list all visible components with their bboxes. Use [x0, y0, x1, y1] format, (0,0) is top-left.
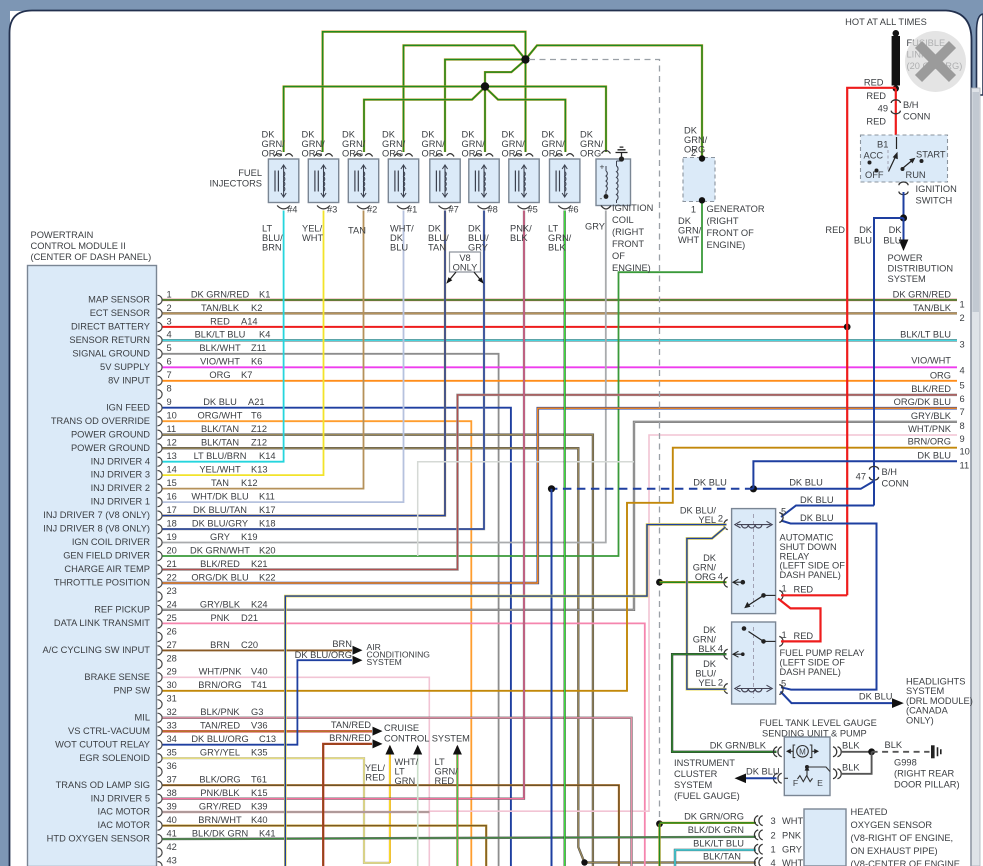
fuel injector #7	[430, 154, 460, 215]
svg-text:ORG/WHT: ORG/WHT	[198, 411, 243, 421]
svg-text:WHT: WHT	[782, 816, 803, 826]
PCM pin 25 DATA LINK TRANSMIT	[54, 613, 258, 628]
node BLK/TAN bottom splice	[581, 859, 587, 865]
svg-text:OFF: OFF	[865, 170, 884, 180]
svg-text:(RIGHT: (RIGHT	[707, 216, 739, 226]
svg-text:BLK: BLK	[548, 243, 566, 253]
svg-text:K14: K14	[259, 451, 276, 461]
svg-text:2: 2	[771, 830, 776, 840]
label DK BLU/TAN under injector 7	[428, 224, 449, 253]
connector B/H CONN 49	[891, 100, 900, 114]
svg-text:SIGNAL GROUND: SIGNAL GROUND	[72, 348, 150, 358]
fuel injector #5	[509, 154, 539, 215]
node BLK splice at G998	[868, 748, 875, 755]
svg-text:DK: DK	[302, 130, 316, 140]
svg-text:K19: K19	[241, 532, 258, 542]
svg-text:INJ DRIVER 5: INJ DRIVER 5	[91, 793, 150, 803]
PCM pin 37 TRANS OD LAMP SIG	[56, 775, 267, 790]
svg-text:INJECTORS: INJECTORS	[209, 179, 262, 189]
svg-text:BLK: BLK	[510, 233, 528, 243]
svg-text:1: 1	[782, 630, 787, 640]
fuel injector #2	[348, 154, 378, 215]
svg-text:FUEL TANK LEVEL GAUGE: FUEL TANK LEVEL GAUGE	[760, 718, 877, 728]
arrow to POWER DISTRIBUTION SYSTEM	[899, 240, 909, 252]
svg-text:RED: RED	[435, 776, 455, 786]
PCM pin 40 IAC MOTOR	[97, 815, 267, 830]
label ASD relay pins	[680, 506, 814, 595]
wire DK GRN/ORG bus injector 3 to injector 5 via top	[323, 32, 526, 152]
svg-text:DK: DK	[262, 130, 276, 140]
PCM pin 31	[158, 694, 177, 709]
wire DK GRN/ORG bus to generator pin 2	[528, 45, 703, 158]
label DK BLU pair below switch	[825, 225, 902, 246]
PCM pin 24 REF PICKUP	[94, 599, 267, 614]
label right edge 6 BLK/RED	[911, 384, 964, 404]
wire DK BLU wire ASD pin 5 to FP pin 5	[781, 521, 877, 690]
svg-text:K18: K18	[259, 519, 276, 529]
PCM pin 22 THROTTLE POSITION	[54, 572, 276, 587]
svg-text:5: 5	[960, 380, 965, 390]
wire BLK/WHT pin 5 ground	[163, 354, 499, 866]
svg-text:GRN/: GRN/	[302, 139, 326, 149]
svg-text:OXYGEN SENSOR: OXYGEN SENSOR	[851, 820, 933, 830]
wire TAN pin 15 to injector 2	[163, 211, 364, 489]
svg-text:ORG: ORG	[542, 149, 563, 159]
svg-text:ORG: ORG	[580, 149, 601, 159]
fuel injector #4	[268, 154, 298, 215]
svg-text:+: +	[600, 162, 605, 172]
svg-text:MAP SENSOR: MAP SENSOR	[88, 295, 150, 305]
label BLK/LT BLU at oxygen sensor	[693, 839, 744, 849]
svg-text:V40: V40	[251, 667, 268, 677]
svg-text:ORG/DK BLU: ORG/DK BLU	[894, 397, 951, 407]
label O2 pin numbers and colors	[771, 816, 804, 866]
label YEL/RED	[365, 763, 386, 783]
PCM pin 39 IAC MOTOR	[97, 802, 267, 817]
svg-text:ORG: ORG	[302, 149, 323, 159]
svg-text:HEATED: HEATED	[851, 807, 888, 817]
PCM pin 16 INJ DRIVER 1	[91, 492, 275, 507]
ground at ignition coil	[616, 147, 628, 161]
svg-text:38: 38	[167, 788, 177, 798]
PCM pin 20 GEN FIELD DRIVER	[63, 545, 275, 560]
svg-text:GRY/BLK: GRY/BLK	[911, 411, 952, 421]
svg-text:TAN/RED: TAN/RED	[331, 720, 371, 730]
V8 ONLY note box	[446, 252, 483, 284]
svg-text:#4: #4	[287, 205, 297, 215]
ignition switch box	[861, 135, 948, 182]
svg-text:ONLY: ONLY	[453, 263, 478, 273]
svg-text:POWERTRAIN: POWERTRAIN	[31, 230, 94, 240]
svg-text:K40: K40	[251, 815, 268, 825]
svg-text:WHT/: WHT/	[390, 224, 414, 234]
node DK BLU left splice	[548, 485, 555, 492]
svg-text:GRN/: GRN/	[502, 139, 526, 149]
svg-text:BLK: BLK	[698, 644, 716, 654]
fuel injector #6	[550, 154, 580, 215]
wire BLK/TAN pin 11	[163, 435, 593, 866]
svg-text:9: 9	[960, 434, 965, 444]
svg-text:GRY/BLK: GRY/BLK	[200, 599, 241, 609]
svg-text:WHT: WHT	[302, 233, 323, 243]
wire DK GRN/ORG wire continues below	[658, 824, 660, 866]
svg-text:3: 3	[960, 339, 965, 349]
PCM pin 32 MIL	[135, 707, 264, 722]
svg-text:BRN: BRN	[332, 639, 352, 649]
svg-text:A21: A21	[248, 397, 265, 407]
svg-text:43: 43	[167, 856, 177, 866]
ground G998	[931, 745, 941, 758]
svg-text:BRN/ORG: BRN/ORG	[908, 437, 951, 447]
label IGNITION COIL (RIGHT FRONT OF ENGINE)	[612, 203, 653, 273]
svg-text:G3: G3	[251, 707, 263, 717]
svg-text:BLK/DK GRN: BLK/DK GRN	[688, 825, 744, 835]
svg-text:DK: DK	[468, 224, 482, 234]
svg-text:RED: RED	[210, 316, 230, 326]
wire BLK/LT BLU pin 4 to right edge	[163, 339, 958, 341]
wire WHT/PNK pin 29 to right edge	[163, 435, 958, 866]
label right edge 7 ORG/DK BLU	[894, 397, 965, 417]
wire DK GRN/ORG bus injector 4 branch	[284, 87, 483, 153]
svg-text:ORG/DK BLU: ORG/DK BLU	[191, 572, 248, 582]
label right edge 5 ORG	[930, 370, 965, 390]
svg-text:DK BLU: DK BLU	[917, 450, 951, 460]
wire unlabeled pale wire near pin 24 lane	[418, 462, 634, 556]
wire BLK/LT BLU wire to O2 pin 1	[675, 850, 756, 866]
svg-text:K15: K15	[251, 788, 268, 798]
svg-text:WHT/PNK: WHT/PNK	[199, 667, 243, 677]
svg-text:BLK/LT BLU: BLK/LT BLU	[693, 839, 744, 849]
PCM pin 1 MAP SENSOR	[88, 289, 270, 304]
svg-text:ORG: ORG	[262, 149, 283, 159]
node DK GRN/ORG tap to ASD relay	[656, 579, 663, 586]
PCM pin 23	[158, 586, 177, 601]
svg-text:4: 4	[960, 365, 965, 375]
svg-text:17: 17	[167, 505, 177, 515]
label BLK/DK GRN at oxygen sensor	[688, 825, 744, 835]
label DK GRN/ORG above position 6	[462, 130, 486, 159]
svg-text:V36: V36	[251, 721, 268, 731]
PCM pin 8	[158, 384, 172, 399]
svg-text:GEN FIELD DRIVER: GEN FIELD DRIVER	[63, 551, 150, 561]
svg-text:LT: LT	[435, 757, 445, 767]
svg-text:ORG: ORG	[422, 149, 443, 159]
svg-text:INJ DRIVER 2: INJ DRIVER 2	[91, 483, 150, 493]
svg-text:BLK/TAN: BLK/TAN	[703, 852, 741, 862]
label right edge 9 WHT/PNK	[908, 424, 965, 444]
svg-text:WOT CUTOUT RELAY: WOT CUTOUT RELAY	[55, 739, 150, 749]
svg-text:35: 35	[167, 748, 177, 758]
PCM pin 12 POWER GROUND	[71, 438, 267, 453]
wire WHT/DK BLU pin 16 to injector 1	[163, 211, 404, 503]
PCM pin 36	[158, 761, 177, 776]
svg-text:M: M	[799, 748, 806, 757]
svg-text:LT: LT	[262, 224, 272, 234]
svg-text:RED: RED	[794, 631, 814, 641]
svg-text:Z12: Z12	[251, 424, 267, 434]
svg-text:DK: DK	[422, 130, 436, 140]
svg-text:30: 30	[167, 680, 177, 690]
label BLK/TAN at oxygen sensor	[703, 852, 741, 862]
svg-text:19: 19	[167, 532, 177, 542]
svg-text:2: 2	[691, 148, 696, 158]
svg-text:GRN: GRN	[395, 776, 416, 786]
svg-text:T61: T61	[251, 775, 267, 785]
svg-text:GRN/: GRN/	[693, 563, 717, 573]
label DK GRN/ORG above position 1	[262, 130, 286, 159]
svg-text:TAN/BLK: TAN/BLK	[913, 303, 952, 313]
label right edge 10 BRN/ORG	[908, 437, 970, 457]
svg-text:DK: DK	[684, 126, 698, 136]
wire VIO/WHT pin 6 to right edge	[163, 366, 958, 368]
svg-text:BLK/PNK: BLK/PNK	[200, 707, 240, 717]
svg-text:14: 14	[167, 465, 177, 475]
svg-text:PNP SW: PNP SW	[113, 685, 150, 695]
wire DK BLU wire long vertical to B/H conn 47	[874, 218, 904, 506]
svg-text:A14: A14	[241, 316, 258, 326]
svg-text:4: 4	[718, 572, 723, 582]
svg-text:TRANS OD OVERRIDE: TRANS OD OVERRIDE	[51, 416, 150, 426]
svg-text:#1: #1	[407, 205, 417, 215]
svg-text:BLK: BLK	[885, 740, 903, 750]
svg-text:ORG: ORG	[462, 149, 483, 159]
wire DK BLU wire 47 down to ASD pin 5	[781, 506, 874, 518]
svg-text:WHT/: WHT/	[395, 757, 419, 767]
wire DK BLU dashed wire to left splice	[552, 488, 754, 490]
svg-text:A/C CYCLING SW INPUT: A/C CYCLING SW INPUT	[43, 645, 151, 655]
wire RED wire vertical to ASD pin 1	[781, 594, 847, 596]
svg-text:IAC MOTOR: IAC MOTOR	[97, 807, 150, 817]
svg-text:10: 10	[167, 411, 177, 421]
svg-text:POWER: POWER	[888, 253, 923, 263]
svg-text:#7: #7	[449, 205, 459, 215]
svg-text:(CENTER OF DASH PANEL): (CENTER OF DASH PANEL)	[31, 252, 152, 262]
label DK GRN/ORG above position 8	[542, 130, 566, 159]
svg-text:INSTRUMENT: INSTRUMENT	[674, 758, 735, 768]
arrows up to cruise control	[385, 745, 462, 755]
svg-text:CONTROL SYSTEM: CONTROL SYSTEM	[384, 734, 470, 744]
svg-text:DASH PANEL): DASH PANEL)	[780, 570, 841, 580]
svg-text:RED: RED	[866, 91, 886, 101]
svg-text:29: 29	[167, 667, 177, 677]
svg-text:#2: #2	[367, 205, 377, 215]
svg-text:BRN/ORG: BRN/ORG	[198, 680, 241, 690]
svg-text:SENSOR RETURN: SENSOR RETURN	[69, 335, 150, 345]
wire LT GRN/BLK injector 6 down	[564, 211, 566, 866]
PCM pin 28	[158, 653, 177, 668]
label DK GRN/ORG at oxygen sensor	[684, 812, 744, 822]
label right edge 11 DK BLU	[917, 450, 969, 470]
PCM pin 34 WOT CUTOUT RELAY	[55, 734, 276, 749]
wire DK GRN/ORG bus to ignition coil	[487, 87, 606, 153]
wire DK BLU wire fuel gauge to instrument cluster	[739, 777, 777, 779]
wire RED wire ASD pin 1 to FP pin 1	[778, 599, 821, 642]
svg-text:WHT: WHT	[678, 235, 699, 245]
svg-text:DK: DK	[580, 130, 594, 140]
svg-text:GRN/: GRN/	[462, 139, 486, 149]
svg-text:ECT SENSOR: ECT SENSOR	[90, 308, 151, 318]
svg-text:ENGINE): ENGINE)	[612, 263, 651, 273]
svg-text:24: 24	[167, 599, 177, 609]
label LT GRN/RED	[435, 757, 459, 786]
svg-text:DK: DK	[542, 130, 556, 140]
svg-text:40: 40	[167, 815, 177, 825]
svg-text:INJ DRIVER 8 (V8 ONLY): INJ DRIVER 8 (V8 ONLY)	[43, 524, 150, 534]
svg-text:TAN: TAN	[428, 243, 446, 253]
svg-text:(FUEL GAUGE): (FUEL GAUGE)	[674, 791, 740, 801]
svg-text:49: 49	[878, 104, 888, 114]
svg-text:DK: DK	[678, 216, 692, 226]
PCM pin 4 SENSOR RETURN	[69, 330, 270, 345]
label LT BLU/BRN under injector 4	[262, 224, 283, 253]
svg-text:WHT/PNK: WHT/PNK	[908, 424, 952, 434]
svg-text:G998: G998	[894, 758, 917, 768]
svg-text:26: 26	[167, 626, 177, 636]
wire DK GRN/ORG bus injector 2 branch	[364, 89, 483, 152]
svg-text:IGNITION: IGNITION	[916, 184, 957, 194]
svg-text:-: -	[600, 193, 603, 203]
wire DK BLU/YEL wire ASD pin 2 to FP pin 2	[687, 527, 727, 689]
svg-text:8: 8	[960, 421, 965, 431]
label right edge 1 DK GRN/RED	[893, 290, 965, 310]
wire PNK pin 25	[163, 623, 645, 866]
svg-text:#6: #6	[568, 205, 578, 215]
PCM pin 38 INJ DRIVER 5	[91, 788, 268, 803]
wire BRN/ORG pin 30 to right edge	[163, 448, 958, 691]
wire DK GRN/RED pin 1 to right edge	[163, 299, 958, 301]
PCM pin 10 TRANS OD OVERRIDE	[51, 411, 262, 426]
svg-text:SYSTEM: SYSTEM	[888, 274, 926, 284]
svg-text:2: 2	[167, 303, 172, 313]
PCM module box: POWERTRAIN CONTROL MODULE II	[28, 230, 157, 866]
svg-text:BLK/LT BLU: BLK/LT BLU	[900, 329, 951, 339]
svg-text:DK: DK	[703, 625, 717, 635]
label BRN/RED and arrow to cruise	[329, 733, 382, 748]
wire BLK/DK GRN pin 41 to O2 pin 2	[163, 837, 757, 839]
label FUEL PUMP RELAY (LEFT SIDE OF DASH PANEL)	[780, 648, 865, 677]
label 47 B/H CONN	[856, 467, 909, 489]
svg-text:GRN/: GRN/	[382, 139, 406, 149]
fusible link	[892, 30, 900, 92]
svg-text:DK BLU/: DK BLU/	[680, 506, 717, 516]
svg-text:6: 6	[960, 394, 965, 404]
heated oxygen sensor connector box	[754, 809, 846, 866]
svg-text:B/H: B/H	[903, 100, 919, 110]
svg-text:(V8-CENTER OF ENGINE,: (V8-CENTER OF ENGINE,	[851, 859, 963, 866]
node DK BLU split below switch	[900, 214, 907, 221]
svg-text:ORG: ORG	[209, 370, 230, 380]
svg-text:BLK: BLK	[842, 741, 860, 751]
svg-text:LT: LT	[395, 767, 405, 777]
label INSTRUMENT CLUSTER SYSTEM (FUEL GAUGE)	[674, 758, 740, 801]
svg-text:HTD OXYGEN SENSOR: HTD OXYGEN SENSOR	[47, 834, 151, 844]
wire DK BLU/ORG pin 34 to A/C system	[163, 660, 353, 745]
svg-text:10: 10	[960, 447, 970, 457]
label FUSIBLE LINK (20 GA ORG)	[907, 38, 963, 71]
svg-text:DK BLU: DK BLU	[693, 478, 727, 488]
svg-text:DK: DK	[859, 225, 873, 235]
svg-text:BLU: BLU	[854, 236, 872, 246]
svg-text:DK BLU/GRY: DK BLU/GRY	[192, 519, 248, 529]
svg-text:BLU/: BLU/	[428, 233, 449, 243]
wire DK BLU wire ignition switch to node	[903, 192, 905, 218]
label G998 (RIGHT REAR DOOR PILLAR)	[894, 758, 960, 790]
svg-text:GRN/: GRN/	[435, 767, 459, 777]
svg-text:11: 11	[960, 460, 970, 470]
svg-text:K21: K21	[251, 559, 268, 569]
svg-text:BLU/: BLU/	[695, 669, 716, 679]
svg-text:YEL/WHT: YEL/WHT	[199, 465, 241, 475]
svg-text:DK: DK	[502, 130, 516, 140]
svg-text:(RIGHT: (RIGHT	[612, 227, 644, 237]
svg-text:E: E	[817, 778, 823, 788]
svg-text:V8: V8	[459, 253, 470, 263]
PCM pin 27 A/C CYCLING SW INPUT	[43, 640, 259, 655]
svg-text:DK: DK	[462, 130, 476, 140]
node B green bus junction	[481, 82, 489, 90]
wire DK BLU/YEL wire ASD pin 2 down	[285, 525, 726, 866]
PCM pin 29 BRAKE SENSE	[84, 667, 267, 682]
wire LT BLU/BRN pin 13 to injector 4	[163, 211, 284, 462]
svg-text:OF: OF	[612, 251, 625, 261]
svg-text:39: 39	[167, 802, 177, 812]
svg-text:IAC MOTOR: IAC MOTOR	[97, 820, 150, 830]
svg-text:DK: DK	[390, 233, 404, 243]
svg-text:GRY: GRY	[782, 845, 802, 855]
svg-text:K7: K7	[241, 370, 252, 380]
svg-text:5: 5	[781, 679, 786, 689]
svg-text:22: 22	[167, 572, 177, 582]
PCM pin 5 SIGNAL GROUND	[72, 343, 266, 358]
svg-text:DK BLU: DK BLU	[789, 478, 823, 488]
label DK BLU/ORG and arrow to A/C	[295, 650, 363, 665]
svg-text:FUEL: FUEL	[238, 168, 262, 178]
svg-text:INJ DRIVER 3: INJ DRIVER 3	[91, 470, 150, 480]
PCM pin 3 DIRECT BATTERY	[71, 316, 258, 331]
svg-text:TAN/BLK: TAN/BLK	[201, 303, 240, 313]
svg-text:CRUISE: CRUISE	[384, 723, 419, 733]
svg-text:GRY: GRY	[210, 532, 230, 542]
svg-text:41: 41	[167, 829, 177, 839]
wire ORG/DK BLU pin 22 to right edge	[163, 408, 958, 583]
svg-text:20: 20	[167, 545, 177, 555]
label WHT/LT GRN	[395, 757, 419, 786]
svg-text:1: 1	[782, 584, 787, 594]
svg-text:16: 16	[167, 492, 177, 502]
svg-text:BRN/RED: BRN/RED	[329, 733, 371, 743]
label right edge 2 TAN/BLK	[913, 303, 965, 323]
svg-text:K2: K2	[251, 303, 262, 313]
PCM pin 30 PNP SW	[113, 680, 267, 695]
svg-text:WHT: WHT	[782, 858, 803, 866]
label TAN/RED and arrow to cruise	[331, 720, 383, 736]
svg-text:27: 27	[167, 640, 177, 650]
svg-text:GRN/: GRN/	[342, 139, 366, 149]
svg-text:DK: DK	[703, 553, 717, 563]
svg-text:ACC: ACC	[864, 151, 884, 161]
PCM pin 18 INJ DRIVER 8 (V8 ONLY)	[43, 519, 275, 534]
label YEL/WHT under injector 3	[302, 224, 323, 244]
wire DK BLU/GRY pin 18 to injector 8	[163, 211, 485, 530]
svg-text:COIL: COIL	[612, 215, 634, 225]
svg-text:PNK: PNK	[210, 613, 230, 623]
label DK GRN/ORG above position 9	[580, 130, 604, 159]
label right edge 3 BLK/LT BLU	[900, 329, 965, 349]
wire DK GRN/BLK wire FP pin 4 to fuel pump	[672, 654, 776, 752]
PCM pin 7 8V INPUT	[108, 370, 252, 385]
svg-text:F: F	[793, 778, 798, 788]
relay ASD: automatic shut down relay	[724, 509, 783, 614]
